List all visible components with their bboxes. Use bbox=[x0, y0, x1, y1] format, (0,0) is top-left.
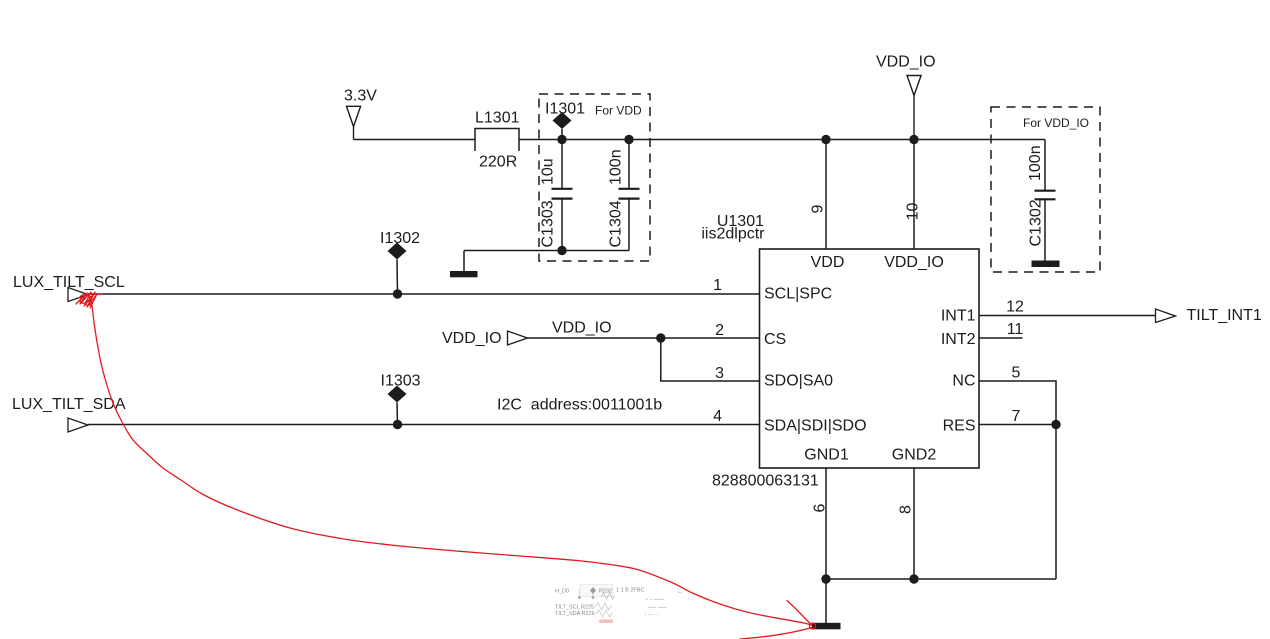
wire LUX_TILT_SDA to pin 4 bbox=[88, 424, 760, 426]
svg-text:SDA|SDI|SDO: SDA|SDI|SDO bbox=[764, 418, 867, 435]
svg-text:For VDD: For VDD bbox=[595, 104, 642, 118]
wire VDD rail bbox=[519, 139, 1045, 141]
junction SCL / I1302 bbox=[393, 289, 402, 298]
svg-text:VDD_IO: VDD_IO bbox=[552, 320, 612, 337]
svg-text:TILT_SDA R226: TILT_SDA R226 bbox=[555, 611, 595, 617]
junction ground rail GND2 bbox=[909, 574, 918, 583]
svg-text:· —– ·–—: · —– ·–— bbox=[645, 605, 667, 611]
svg-text:I1302: I1302 bbox=[380, 230, 420, 247]
wire GND2 pin 8 bbox=[913, 468, 915, 579]
junction VDD rail / C1303 bbox=[557, 135, 566, 144]
svg-text:12: 12 bbox=[1006, 299, 1024, 316]
svg-text:: ·– · :: : ·– · : bbox=[645, 612, 658, 618]
junction NC/RES node bbox=[1051, 420, 1060, 429]
wire LUX_TILT_SCL to pin 1 bbox=[88, 293, 760, 295]
wire RES pin 7 bbox=[979, 424, 1056, 426]
svg-text:3.3V: 3.3V bbox=[344, 88, 377, 105]
net TILT_INT1 port bbox=[1156, 307, 1262, 324]
ground for C1302 bbox=[1032, 261, 1060, 268]
ground for VDD caps bbox=[450, 251, 478, 278]
svg-text:TILT_SCL R225: TILT_SCL R225 bbox=[555, 605, 594, 611]
annotation red curve bbox=[91, 296, 813, 625]
svg-text:NC: NC bbox=[952, 373, 975, 390]
junction VDD rail / C1304 bbox=[624, 135, 633, 144]
svg-text:10u: 10u bbox=[540, 158, 557, 185]
svg-text:100n: 100n bbox=[1027, 145, 1044, 181]
net LUX_TILT_SCL port bbox=[13, 274, 125, 302]
wire GND1 pin 6 bbox=[825, 468, 827, 623]
ghost schematic overlay bbox=[555, 585, 683, 624]
junction VDD rail / pin 9 bbox=[821, 135, 830, 144]
capacitor C1304 bbox=[619, 140, 640, 251]
svg-text:I1301: I1301 bbox=[545, 101, 585, 118]
svg-text:220R: 220R bbox=[479, 154, 517, 171]
svg-text:–·: –· bbox=[678, 590, 683, 596]
wire NC pin 5 bbox=[979, 381, 1056, 425]
svg-text:7: 7 bbox=[1012, 408, 1021, 425]
svg-text:TILT_INT1: TILT_INT1 bbox=[1187, 307, 1262, 324]
wire pin 10 VDD_IO bbox=[913, 140, 915, 250]
svg-text:828800063131: 828800063131 bbox=[712, 473, 819, 490]
svg-text:11: 11 bbox=[1007, 321, 1024, 338]
svg-text:1 1 B 2FBC: 1 1 B 2FBC bbox=[616, 588, 644, 594]
svg-text:INT2: INT2 bbox=[941, 331, 976, 348]
svg-text:3: 3 bbox=[715, 365, 724, 382]
svg-text:INT1: INT1 bbox=[941, 308, 976, 325]
svg-text:SDO|SA0: SDO|SA0 bbox=[764, 373, 833, 390]
capacitor C1302 bbox=[1035, 140, 1056, 261]
svg-text:GND2: GND2 bbox=[892, 447, 937, 464]
svg-text:RES: RES bbox=[943, 418, 976, 435]
svg-text:For VDD_IO: For VDD_IO bbox=[1023, 116, 1089, 130]
marker I1302 bbox=[388, 243, 407, 295]
net VDD_IO input port bbox=[442, 330, 528, 347]
capacitor C1303 bbox=[552, 140, 573, 251]
marker I1303 bbox=[388, 386, 407, 425]
wire pin 9 VDD bbox=[825, 140, 827, 250]
svg-text:8: 8 bbox=[898, 505, 915, 514]
net LUX_TILT_SDA port bbox=[12, 396, 126, 432]
annotation red scribble at LUX_TILT_SCL bbox=[76, 292, 102, 308]
marker I1301 bbox=[553, 112, 572, 140]
svg-text:C1303: C1303 bbox=[540, 200, 557, 247]
For VDD region dashed box bbox=[539, 94, 650, 261]
svg-text:5: 5 bbox=[1012, 365, 1021, 382]
wire 3.3V to L1301 bbox=[354, 139, 476, 141]
power symbol 3.3V bbox=[347, 106, 361, 139]
wire ground rail bbox=[826, 578, 1056, 580]
svg-text:I1303: I1303 bbox=[381, 373, 421, 390]
wire INT2 pin 11 stub bbox=[979, 337, 1023, 339]
svg-text:LUX_TILT_SDA: LUX_TILT_SDA bbox=[12, 396, 126, 413]
svg-text:~ ·- ——: ~ ·- —— bbox=[645, 597, 664, 603]
junction SDA / I1303 bbox=[393, 420, 402, 429]
svg-text:C1302: C1302 bbox=[1028, 199, 1045, 246]
svg-text:CS: CS bbox=[764, 331, 786, 348]
ground main bbox=[812, 623, 841, 630]
svg-text:VDD: VDD bbox=[811, 254, 845, 271]
svg-text:L1301: L1301 bbox=[475, 110, 520, 127]
svg-text:VDD_IO: VDD_IO bbox=[884, 254, 944, 271]
junction VDD rail / pin 10 bbox=[909, 135, 918, 144]
wire INT1 pin 12 to TILT_INT1 bbox=[979, 315, 1155, 317]
annotation red arrowhead at ground bbox=[740, 601, 816, 639]
For VDD_IO region dashed box bbox=[991, 107, 1100, 272]
IC U1301 outline bbox=[760, 249, 980, 468]
wire VDD_IO to pin 2 CS bbox=[528, 337, 760, 339]
wire VDD_IO node to pin 3 SDO|SA0 bbox=[661, 338, 760, 381]
junction ground rail GND1 bbox=[821, 574, 830, 583]
wire RES node down to ground rail bbox=[1055, 425, 1057, 580]
svg-text:9: 9 bbox=[810, 204, 827, 213]
svg-text:4: 4 bbox=[713, 408, 722, 425]
svg-text:GND1: GND1 bbox=[804, 447, 849, 464]
svg-text:VDD_IO: VDD_IO bbox=[876, 54, 936, 71]
wire capacitor bottom rail bbox=[464, 250, 629, 252]
svg-text:6: 6 bbox=[812, 503, 829, 512]
svg-text:1: 1 bbox=[713, 277, 722, 294]
svg-text:SCL|SPC: SCL|SPC bbox=[764, 286, 832, 303]
inductor L1301 bbox=[474, 129, 519, 152]
svg-text:VDD_IO: VDD_IO bbox=[442, 330, 502, 347]
power symbol VDD_IO bbox=[907, 76, 921, 140]
svg-text:2: 2 bbox=[715, 322, 724, 339]
svg-text:iis2dlpctr: iis2dlpctr bbox=[701, 226, 765, 243]
svg-text:C1304: C1304 bbox=[608, 200, 625, 247]
junction VDD_IO node bbox=[656, 333, 665, 342]
svg-text:I2C address:0011001b: I2C address:0011001b bbox=[497, 397, 662, 414]
svg-text:H_D0: H_D0 bbox=[555, 589, 569, 595]
junction capacitor bottom rail bbox=[557, 246, 566, 255]
svg-text:10: 10 bbox=[905, 203, 922, 221]
svg-text:100n: 100n bbox=[608, 149, 625, 185]
